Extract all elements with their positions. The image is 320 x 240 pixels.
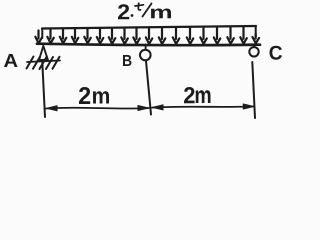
label C <box>270 46 283 60</box>
support A ground line <box>27 61 60 63</box>
dimension text left: 2 <box>79 87 90 104</box>
load arrow 2 <box>47 30 54 44</box>
load label: multiplication dot <box>131 14 134 17</box>
load arrow 15 <box>214 27 221 43</box>
slash of t/m <box>143 4 152 17</box>
load arrow 14 <box>200 28 207 44</box>
load arrow 7 <box>109 29 116 44</box>
load arrow 10 <box>146 29 153 44</box>
dimension text right: m <box>196 90 211 103</box>
dim arrow at B-left (points right) <box>138 106 149 111</box>
load right edge <box>255 26 257 36</box>
stem beam to circle B <box>145 45 147 50</box>
dimension text left: m <box>93 91 109 103</box>
load arrow 17 <box>240 27 247 44</box>
support C roller circle <box>249 47 258 56</box>
dimension text right: 2 <box>184 87 195 103</box>
load arrow 9 <box>133 29 140 44</box>
load label: digit 2 <box>118 4 129 19</box>
superscript t crossbar <box>135 5 144 6</box>
load left edge <box>41 29 43 39</box>
load arrow 16 <box>227 27 234 43</box>
dim arrow at A (points left) <box>47 106 58 111</box>
load arrow 11 <box>159 28 166 44</box>
support A pin triangle <box>39 46 48 60</box>
extension line at A <box>42 62 45 117</box>
load arrow 12 <box>173 28 180 44</box>
label A <box>4 54 18 67</box>
load arrow 5 <box>84 29 91 43</box>
extension line at B <box>146 61 151 115</box>
superscript t stem <box>138 3 140 10</box>
load arrow 8 <box>121 29 128 44</box>
dimension line A-B <box>46 107 149 110</box>
load arrow 13 <box>187 28 194 44</box>
load arrow 18 <box>253 34 260 43</box>
dim arrow at C (points right) <box>243 104 254 109</box>
dimension line B-C <box>152 106 254 107</box>
dim arrow at B-right (points left) <box>153 105 164 110</box>
load arrow 4 <box>72 29 79 43</box>
beam A-C <box>37 44 260 45</box>
distributed load top line <box>42 26 256 29</box>
stem beam to circle C <box>253 45 255 47</box>
load arrow 6 <box>97 29 104 43</box>
load label: m of t/m <box>151 9 171 19</box>
load arrows <box>35 27 259 44</box>
extension line at C <box>252 62 255 118</box>
load arrow 1 <box>35 31 42 44</box>
support A ground hatching <box>27 57 60 70</box>
load arrow 3 <box>60 30 67 44</box>
label B <box>123 55 132 66</box>
support B roller circle <box>140 50 151 61</box>
